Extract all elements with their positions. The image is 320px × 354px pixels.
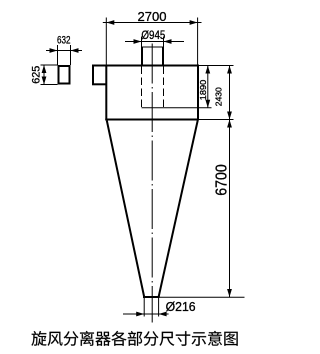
svg-text:625: 625 <box>31 66 43 84</box>
cone bottom opening edge <box>143 296 160 298</box>
cylinder bottom extension line (right) <box>199 119 234 121</box>
cone left slant <box>107 121 144 298</box>
caption: xuanfeng fenliqi gebufen chicun shiyitu <box>31 331 237 346</box>
svg-text:1890: 1890 <box>199 79 208 100</box>
dimension dia945 label <box>141 28 165 42</box>
svg-text:Ø216: Ø216 <box>166 299 196 314</box>
svg-text:2430: 2430 <box>214 87 224 106</box>
dimension dia945 extension lines <box>142 37 164 48</box>
dimension 2430 label (rotated) <box>214 87 224 106</box>
cone bottom extension line (right, for 6700) <box>160 296 245 298</box>
inlet duct (left protrusion) <box>92 66 107 86</box>
svg-text:632: 632 <box>57 35 71 47</box>
dimension 6700 label (rotated) <box>213 164 230 196</box>
dimension dia216 label <box>166 299 196 314</box>
dimension dia945 line (arrows outside pointing in) <box>125 39 184 44</box>
cyclone body top edge <box>92 65 199 67</box>
body right edge <box>197 66 199 121</box>
dimension 625 extension lines <box>41 65 58 85</box>
detail square (inlet section) <box>59 66 70 84</box>
dimension 2430 line <box>227 66 232 120</box>
cone right slant <box>159 121 198 298</box>
dimension dia216 line (arrows outside pointing in) <box>123 312 169 317</box>
dimension 632 label <box>57 35 71 47</box>
dimension 632 line <box>46 48 82 53</box>
dimension 625 label (rotated) <box>31 66 43 84</box>
dimension 2700 label <box>138 9 167 24</box>
body top extension line (right) <box>199 65 234 67</box>
vortex finder tube (outlet pipe) <box>142 47 164 66</box>
inner tube bottom / 1890 extension line <box>142 107 212 109</box>
dimension 2700 extension lines <box>106 18 197 66</box>
inner tube hidden (dashed) lines <box>142 67 164 108</box>
svg-text:Ø945: Ø945 <box>141 28 165 42</box>
dimension 625 line <box>42 65 47 85</box>
centerline <box>151 44 153 323</box>
svg-text:6700: 6700 <box>213 164 230 196</box>
dust outlet extension lines (down, for dia 216) <box>144 297 158 317</box>
svg-text:2700: 2700 <box>138 9 167 24</box>
dimension 2700 line <box>103 20 202 25</box>
dimension 1890 line <box>205 66 210 108</box>
cylinder bottom edge <box>105 119 199 121</box>
dimension 1890 label (rotated) <box>199 79 208 100</box>
body left edge <box>105 66 107 121</box>
dimension 632 extension lines <box>58 45 71 65</box>
dimension 6700 line <box>227 120 232 298</box>
